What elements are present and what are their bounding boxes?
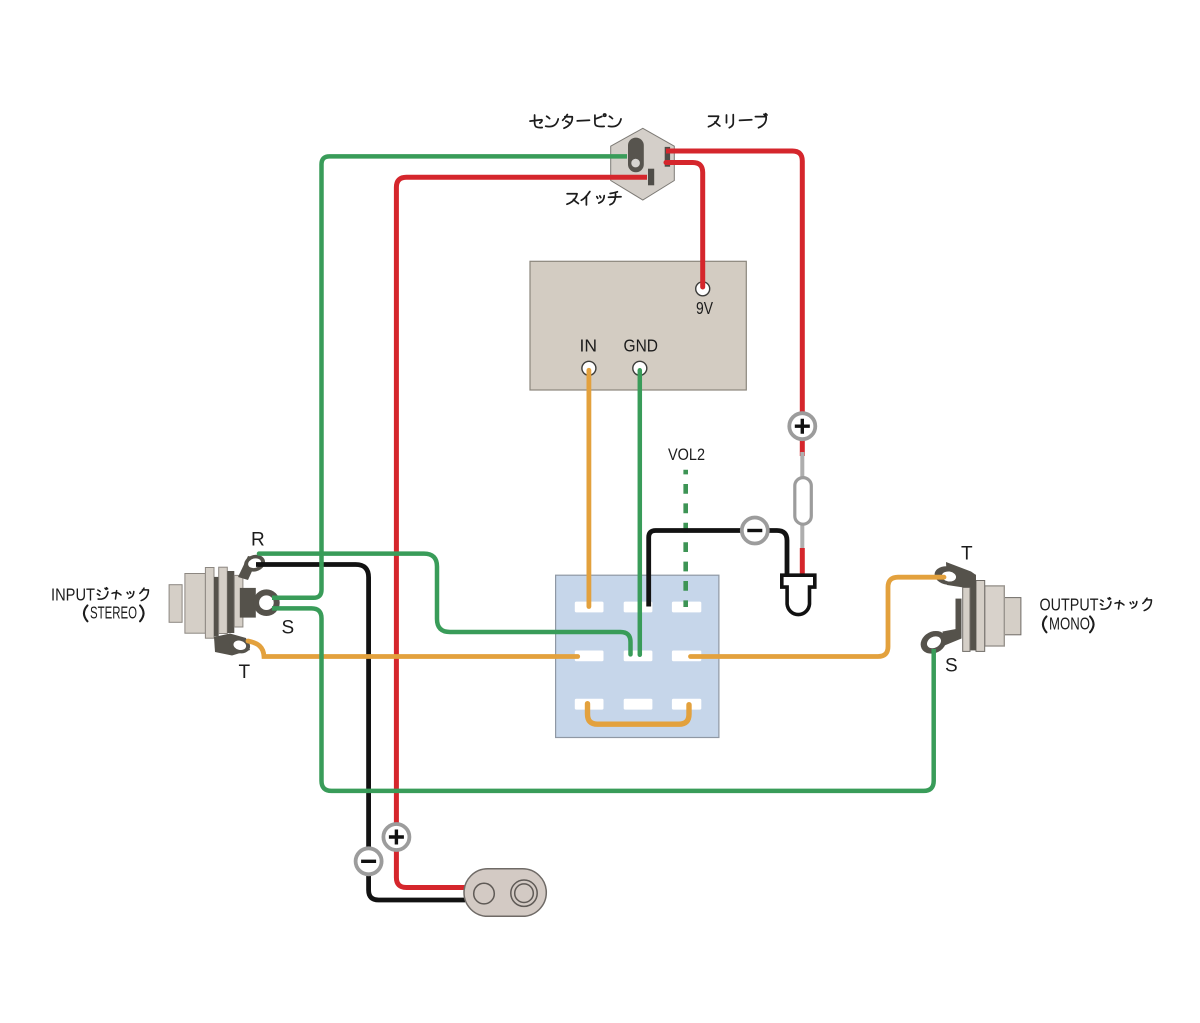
battery snap connector (bottom) [464,869,546,917]
wire orange: switch row2-col3 to OUTPUT T lug [691,577,945,656]
LED [782,575,815,614]
switch lug slot row2 col3 [672,651,701,662]
wire orange: INPUT T lug to switch row2-col1 [248,641,578,657]
svg-text:S: S [282,618,295,639]
pad IN on PCB [582,361,596,375]
switch lug slot row1 col2 [624,602,653,613]
wire red: DC sleeve lug to LED (+) side [666,151,802,456]
svg-text:S: S [945,656,958,677]
svg-text:T: T [961,544,973,565]
INPUT jack S lug [240,588,280,618]
switch lug slot row2 col1 [575,651,604,662]
wire green: INPUT R lug to switch row2-col2 [259,554,631,655]
wire red: DC sleeve lug to 9V pad [666,163,703,288]
svg-text:R: R [251,530,265,551]
svg-text:GND: GND [624,336,659,356]
wire green: INPUT S lug to OUTPUT S lug [272,608,934,791]
svg-text:9V: 9V [696,298,713,318]
wire red: DC switch lug to battery snap (+) [396,177,647,887]
wire red: capsule to LED [800,548,805,580]
label スリーブ (DC sleeve) [708,114,766,128]
label (MONO) [1043,616,1094,632]
battery + terminal marker (right) [789,413,815,439]
label センターピン (DC center pin) [530,114,621,128]
DC jack sleeve lug [665,147,670,167]
wire orange: IN pad to switch row1-col1 [587,370,592,606]
wire orange: jumper switch row3-col1 to row3-col3 [588,704,690,725]
svg-text:T: T [239,662,251,683]
wire VOL2 dashed (green) [683,470,688,607]
DC jack switch lug [648,169,654,186]
INPUT jack T lug [214,634,252,656]
wire green: GND pad to switch row2-col2 [638,370,643,655]
svg-text:STEREO: STEREO [90,603,137,623]
OUTPUT jack S lug [917,599,962,658]
svg-text:VOL2: VOL2 [668,445,705,464]
battery snap capsule (right) [795,478,812,525]
label (STEREO) [84,605,144,621]
wire gray: battery snap lead through capsule [800,452,804,551]
3PDT footswitch (blue box) [556,575,719,737]
battery + terminal marker (bottom) [383,824,409,850]
switch lug slot row2 col2 [624,651,653,662]
pad GND on PCB [633,361,647,375]
svg-text:MONO: MONO [1049,614,1090,634]
battery - terminal marker (right) [742,518,768,544]
switch lug slot row3 col3 [672,699,701,710]
label スイッチ (DC switch) [567,191,621,204]
svg-text:IN: IN [580,336,598,356]
wire black: switch row1-col2 to LED cathode [649,531,787,607]
DC jack center pin lug [628,138,644,173]
INPUT jack body [169,567,243,638]
switch lug slot row3 col2 [624,699,653,710]
OUTPUT jack body [963,575,1021,652]
battery - terminal marker (bottom) [356,848,382,874]
DC jack J3 (hexagon body) [611,128,675,200]
INPUT jack R lug [238,552,267,580]
wire green: DC center pin to INPUT S lug [272,156,627,597]
wire black: INPUT R lug to battery snap (-) [256,565,465,901]
svg-text:INPUT: INPUT [51,585,95,605]
svg-text:OUTPUT: OUTPUT [1040,595,1099,615]
OUTPUT jack T lug [933,562,976,588]
switch lug slot row1 col3 [672,602,701,613]
switch lug slot row1 col1 [575,602,604,613]
switch lug slot row3 col1 [575,699,604,710]
pad 9V on PCB [696,282,710,296]
circuit board PCB [530,261,746,390]
